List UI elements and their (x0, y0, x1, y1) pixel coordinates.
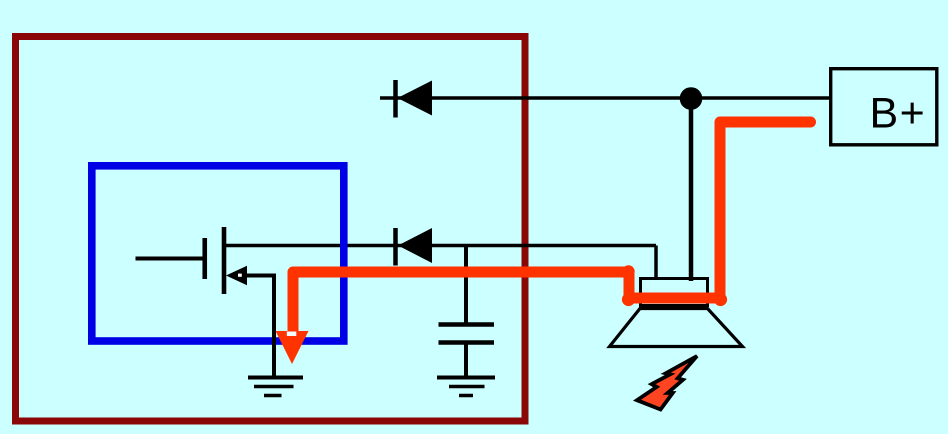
svg-text:B+: B+ (870, 90, 927, 138)
